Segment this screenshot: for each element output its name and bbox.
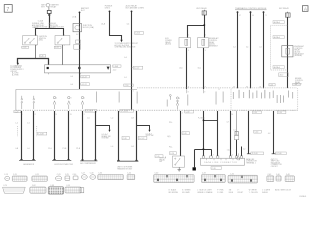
connector C-25 [65,174,70,180]
DLC inner ticks [207,159,240,161]
svg-text:0-4: 0-4 [233,47,235,49]
svg-text:C-22: C-22 [55,47,59,49]
end label 2 [276,152,287,155]
node wire B [131,11,133,13]
junction dot 2 [78,67,80,69]
label 4-C-22 lower [81,83,90,86]
page ref box 7 [4,5,12,13]
branch arrow from wire 8 [137,126,151,133]
connector C-82 [30,185,46,193]
svg-text:SHIELD: SHIELD [262,192,269,194]
strip top pin numbers [133,89,221,93]
connector C-17 [81,173,87,180]
svg-text:P : PINK: P : PINK [217,190,224,192]
svg-text:C-17: C-17 [81,173,85,175]
label C-30 box [254,130,262,133]
right key relay wire [287,17,289,88]
svg-text:A-05A-4: A-05A-4 [274,21,280,24]
svg-text:4-0: 4-0 [243,148,245,150]
strip fork connector 5 [176,97,180,110]
labels mid wires [87,117,134,148]
wire A [110,11,122,40]
svg-text:34: 34 [246,87,248,89]
plug connector [233,129,238,139]
connector small left [80,188,84,193]
svg-text:L-0: L-0 [111,146,114,148]
svg-text:16: 16 [231,114,233,116]
lower wire 6 [95,111,97,161]
svg-text:KEY RELAY: KEY RELAY [196,7,207,10]
svg-text:1-40: 1-40 [40,56,43,58]
connector C-33 mid grid [201,173,225,183]
label A-05A-4 c [273,66,284,69]
svg-text:R : RED: R : RED [217,192,224,194]
svg-text:1-0-0B: 1-0-0B [38,134,44,136]
svg-text:B-07: B-07 [81,10,85,12]
inline relay box right [282,46,293,57]
svg-text:A-05A-4: A-05A-4 [274,66,280,69]
inline connector 2 on IOD wire [74,44,81,49]
bracket 4 [117,160,138,162]
svg-text:C-20: C-20 [15,111,19,113]
junction block box [45,65,111,73]
svg-text:(A-05X): (A-05X) [165,43,171,46]
TCM label underline [235,9,267,11]
svg-text:2-0: 2-0 [87,117,90,119]
svg-text:C-28: C-28 [123,138,127,140]
label 4-C-20A [120,109,134,112]
lower wire 8 [136,111,138,161]
connector C-18 [90,173,96,180]
svg-text:C-59: C-59 [66,185,70,187]
connector C-59 [65,185,81,193]
svg-text:L : BLUE LG: LIGHT: L : BLUE LG: LIGHT [197,190,211,192]
svg-text:CIRCUIT: CIRCUIT [271,166,278,168]
legend cluster 6 [237,190,243,194]
svg-text:11 C-06: 11 C-06 [252,153,258,155]
connector C-70 [3,185,26,193]
dlc wire c [230,111,232,156]
label A-10 [279,73,289,77]
svg-text:57: 57 [239,15,241,17]
legend cluster 1 [169,189,179,194]
module strip top edge dashed [137,87,231,89]
ignition switch IG1 box [23,34,38,47]
clutch switch box [165,156,185,167]
bottom color labels left [15,148,80,150]
wire B [131,11,133,109]
wire right end [273,111,275,154]
svg-text:0-4: 0-4 [246,47,248,49]
svg-text:1 : 2-WIRE: 1 : 2-WIRE [262,190,270,192]
svg-text:JC03B-01: JC03B-01 [299,196,306,198]
connector C-43 [267,174,274,181]
wire A dest text [115,43,138,49]
svg-text:1: 1 [22,114,23,116]
label C-20 clutch [155,155,163,158]
generator bracket [19,159,36,161]
module strip top edge [16,88,137,90]
svg-text:BLOCK (15A): BLOCK (15A) [83,26,94,29]
DLC box [201,158,245,165]
svg-text:0-4: 0-4 [124,57,127,59]
relay A out wire [186,48,188,89]
label C-50 on dotted box top [269,84,275,87]
connector label C-22 left [22,46,29,49]
wire IG2 down [62,45,64,65]
fuse F1 [73,24,82,32]
svg-text:1-8-20: 1-8-20 [135,33,140,35]
fusible link [47,10,51,13]
svg-text:Y : YELLOW: Y : YELLOW [249,192,258,194]
svg-text:0-7: 0-7 [227,121,229,123]
bus to ignition switches [36,29,64,36]
connector C-30a [73,174,79,180]
right key relay connector [286,12,291,17]
svg-text:0-8: 0-8 [131,146,134,148]
legend cluster 5 [229,190,233,194]
svg-text:13: 13 [70,114,72,116]
label C-50 right of key wire [293,83,300,86]
connector C-88 [48,185,63,194]
relay U1 text [165,38,172,45]
text block fusible left [32,23,45,29]
svg-text:(IG1): (IG1) [39,40,43,42]
svg-text:ASSEMBLY: ASSEMBLY [209,44,219,47]
svg-text:1-C-22: 1-C-22 [139,138,144,140]
svg-text:A-05A-4: A-05A-4 [274,36,280,39]
svg-text:P-4 (R-L): P-4 (R-L) [198,118,205,120]
lower wire 2 [33,111,35,160]
svg-text:L-0: L-0 [15,122,18,124]
TCM wire 1 [237,12,239,88]
legend cluster 7 [249,190,258,194]
svg-text:2-IGNITION SW: 2-IGNITION SW [51,26,64,28]
svg-text:C-20: C-20 [127,173,131,175]
relay B out wire [203,48,205,89]
inline connector on IOD wire [76,40,81,43]
ref text charging system [10,64,24,76]
svg-text:P2-L: P2-L [169,146,173,148]
TCM wire top pin labels [239,15,267,17]
svg-text:P2-L: P2-L [169,122,173,124]
label 4-C-22 wire B [132,66,143,69]
label C-28 c [182,132,190,135]
svg-text:0-4: 0-4 [127,24,130,26]
legend cluster 9 [275,190,292,192]
svg-text:0(0): 0(0) [167,136,170,138]
svg-text:P0-L: P0-L [48,148,52,150]
end bar 2 [272,153,276,155]
svg-text:TRANSISTOR UNIT: TRANSISTOR UNIT [117,167,132,170]
node TCM wire 1 [237,11,239,13]
svg-text:1: 1 [133,91,134,93]
page ref box A [302,6,308,12]
svg-text:71: 71 [265,15,267,17]
legend cluster 3 [197,190,212,194]
svg-text:1 4-0: 1 4-0 [227,150,231,152]
dlc wire labels [227,114,234,152]
svg-text:0-1: 0-1 [259,47,261,49]
arrow wire A [120,40,122,43]
lower wire 3 [54,111,56,160]
svg-text:C-18: C-18 [90,173,94,175]
svg-text:L-0: L-0 [27,148,30,150]
label C-50 wire B [124,84,133,87]
svg-text:4- C-20 A: 4- C-20 A [121,110,129,113]
svg-text:A-10: A-10 [280,74,284,77]
branch arrow from wire 6 [96,126,111,133]
connector C-23 [56,174,62,181]
wire A feed text [105,6,113,10]
wire branch to relay A [188,26,205,38]
lower wire 5 [82,111,84,161]
connector C-30 wide [98,173,124,180]
label 1-0-0B [38,132,47,135]
svg-text:BR: BROWN: BR: BROWN [169,192,179,194]
connector C-30 mid grid [154,173,195,183]
connector C-19 [12,174,27,181]
junction box arrow [107,67,110,70]
strip fork connector 2 [67,96,71,109]
TCM dotted box [231,88,298,110]
svg-text:G : GREEN: G : GREEN [182,190,191,192]
clutch wire labels [167,122,172,148]
clutch feed wire [180,111,182,156]
label C-58 [185,110,194,113]
lower pin numbers left [22,114,85,116]
right column text block [295,78,303,85]
svg-text:27: 27 [233,87,235,89]
node TCM wire 3 [263,11,265,13]
svg-text:L-0: L-0 [111,117,114,119]
svg-text:0-4: 0-4 [70,76,73,78]
svg-text:0-C-20 A: 0-C-20 A [86,110,94,113]
svg-text:KEY RELAY: KEY RELAY [279,7,290,10]
svg-text:2: 2 [205,34,206,36]
label 4-C-22 upper [81,75,90,78]
svg-text:C-13: C-13 [4,174,8,176]
label C-22 b [138,136,147,140]
dashed bracket A-05 [271,25,288,70]
svg-text:LINK 2: LINK 2 [105,8,111,10]
svg-text:4 C-06: 4 C-06 [276,153,281,155]
node key relay junction [204,24,206,26]
label A-05A-4 b [273,36,284,39]
svg-text:A/C COMPRESSOR: A/C COMPRESSOR [80,162,96,165]
legend cluster 2 [182,190,191,194]
battery feed wire [49,14,51,29]
junction box labels right [113,65,121,72]
ground drop wire [194,150,196,168]
svg-text:C-30: C-30 [255,132,259,134]
strip fork connector 3 [81,96,85,109]
node IOD feed [79,12,81,14]
connector C-13 [4,174,10,180]
bus to charging system [18,59,49,65]
clutch switch label C-26 [169,152,176,155]
node dlc feed [203,148,205,150]
svg-text:5-10A: 5-10A [38,19,44,22]
label A-05A-4 a [273,21,284,24]
connector label C-22 right [54,46,61,49]
inline relay text [294,45,304,57]
label C-28 a [122,136,129,140]
end text 1 [246,158,258,165]
svg-text:SW: SW [159,161,162,163]
label C-20 strip left [14,110,21,113]
svg-text:C-58: C-58 [186,111,190,113]
label C-50 right a [252,111,261,114]
svg-text:C-50: C-50 [125,85,129,87]
end text 2 [271,159,283,168]
svg-text:17: 17 [219,89,221,91]
relay U2 text [209,37,219,47]
svg-text:C-50: C-50 [278,112,282,114]
ground block [193,167,196,170]
ground clutch [178,167,181,171]
svg-text:C-50: C-50 [253,112,257,114]
svg-text:C-50: C-50 [294,84,298,86]
DLC pin numbers [213,148,245,156]
svg-text:(ENGINE): (ENGINE) [294,55,302,57]
svg-text:C-28: C-28 [183,133,187,135]
junction dot 1 [47,67,49,69]
connector C-48 [285,174,294,181]
plug wire thin [236,111,238,131]
svg-text:54: 54 [252,15,254,17]
svg-text:VIOLET: VIOLET [237,192,243,194]
label 1-8-20 [135,32,144,35]
svg-text:06-L: 06-L [198,68,201,70]
svg-text:2: 2 [84,114,85,116]
svg-text:4-C-22: 4-C-22 [134,68,139,70]
dlc wire b [217,111,219,156]
svg-text:0-1: 0-1 [27,122,30,124]
svg-text:C-22: C-22 [23,47,27,49]
svg-text:C-30: C-30 [98,173,102,175]
svg-text:C-70: C-70 [3,185,7,187]
connector C-20b [127,173,135,180]
svg-text:A-3 RHD: A-3 RHD [12,73,20,76]
svg-text:TERMINAL 1: TERMINAL 1 [246,161,256,164]
module strip left edge [15,89,17,110]
branch between dlc wires [204,120,218,122]
DLC pins [202,156,243,158]
branch 2 dest text [146,132,154,137]
IOD wire [79,12,81,89]
svg-text:8: 8 [35,114,36,116]
twisted pair dashes [17,126,36,136]
clutch switch text [159,158,167,164]
svg-text:4-C-22: 4-C-22 [82,84,87,86]
lower wire 1 [21,111,23,160]
svg-text:C-33: C-33 [212,168,216,170]
svg-text:0-1: 0-1 [124,77,127,79]
svg-text:CENTRALIZED JUNCTION: CENTRALIZED JUNCTION [115,46,137,49]
svg-text:B(OS) : WIRE COLOR: B(OS) : WIRE COLOR [275,190,292,192]
relay U1 box [179,38,191,48]
svg-text:4-10: 4-10 [113,70,116,72]
strip pin symbol 1 [21,96,23,109]
key relay connector [202,10,206,15]
svg-text:4-C-22: 4-C-22 [82,76,87,78]
connector C-32 grid [228,173,258,183]
strip fork connector 4 [169,95,171,100]
TCM wire 2 [250,12,252,88]
module strip bottom edge [16,109,298,111]
lower wire 4 [68,111,70,160]
label 0-C-20A [85,109,97,112]
svg-text:BOX (ENGINE COMP): BOX (ENGINE COMP) [126,8,145,10]
DLC label [211,167,221,170]
ignition bracket [52,159,71,161]
svg-text:RELAY: RELAY [50,5,57,8]
svg-text:L0-6: L0-6 [179,68,182,70]
fuse label [83,25,94,29]
svg-text:4-IGNITION SW: 4-IGNITION SW [34,26,47,28]
bracket 3 [80,160,97,162]
legend cluster 8 [262,190,270,194]
text block fusible right [49,22,59,29]
svg-text:DATA LINK CONNECTOR: DATA LINK CONNECTOR [204,161,237,164]
end bar 1 [247,153,251,155]
strip vertical pin name texts [96,90,293,107]
ignition switch IG2 box [55,34,70,47]
ignition switch center text [39,36,48,42]
relay U2 box [198,38,209,48]
label C-50 right b [277,111,286,114]
svg-text:0-2: 0-2 [268,133,271,135]
svg-text:C-82: C-82 [32,185,36,187]
strip pin symbol 2 [33,96,35,109]
strip top pin ticks [187,89,204,93]
wire IG1 down [35,45,37,59]
svg-text:0-8: 0-8 [131,117,134,119]
DLC extra wire [241,147,243,156]
node wire A [109,11,111,13]
svg-text:C-50: C-50 [270,85,274,87]
connector C-40 [276,174,281,181]
wire to C-30 [248,111,250,154]
IOD feed text [81,7,90,12]
branch 1 dest text [102,133,111,140]
strip fork connector 1 [53,96,57,109]
svg-text:TRANSAXLE CONTROL MODULE: TRANSAXLE CONTROL MODULE [235,7,267,10]
dlc pin drop [211,150,213,156]
DLC right circle terminal [237,153,240,160]
svg-text:0-4: 0-4 [70,84,73,86]
node branch [203,120,205,122]
node TCM wire 2 [250,11,252,13]
key relay wire [204,15,206,38]
lower wire 7 [118,111,120,161]
connector C-21 [32,174,48,181]
label 1-40 [39,55,45,58]
svg-text:11: 11 [56,114,58,116]
wire end ticks [20,158,138,161]
TCM wire 3 [263,12,265,88]
svg-text:4: 4 [182,113,183,115]
svg-text:44: 44 [259,87,261,89]
svg-text:GENERATOR: GENERATOR [23,163,35,166]
wire battery to fusible link [48,7,50,10]
junction box pin stubs [48,73,50,74]
bracket 4 label [117,166,133,170]
legend cluster 4 [217,190,224,194]
svg-text:SYSTEM: SYSTEM [102,138,110,140]
battery [41,3,59,8]
